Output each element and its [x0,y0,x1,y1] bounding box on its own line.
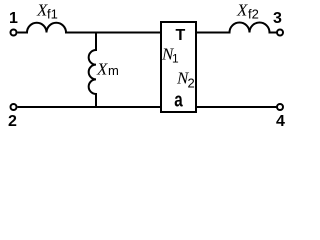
svg-text:2: 2 [8,113,17,130]
svg-text:2: 2 [188,76,195,91]
svg-text:m: m [108,63,119,78]
svg-text:3: 3 [273,10,282,27]
svg-text:a: a [174,88,183,111]
svg-text:4: 4 [276,113,285,130]
svg-text:f1: f1 [47,7,58,22]
svg-text:f2: f2 [248,7,259,22]
svg-text:1: 1 [9,10,18,27]
svg-text:X: X [236,1,248,20]
svg-text:T: T [176,27,186,44]
svg-text:1: 1 [172,52,179,66]
svg-text:X: X [96,59,108,78]
